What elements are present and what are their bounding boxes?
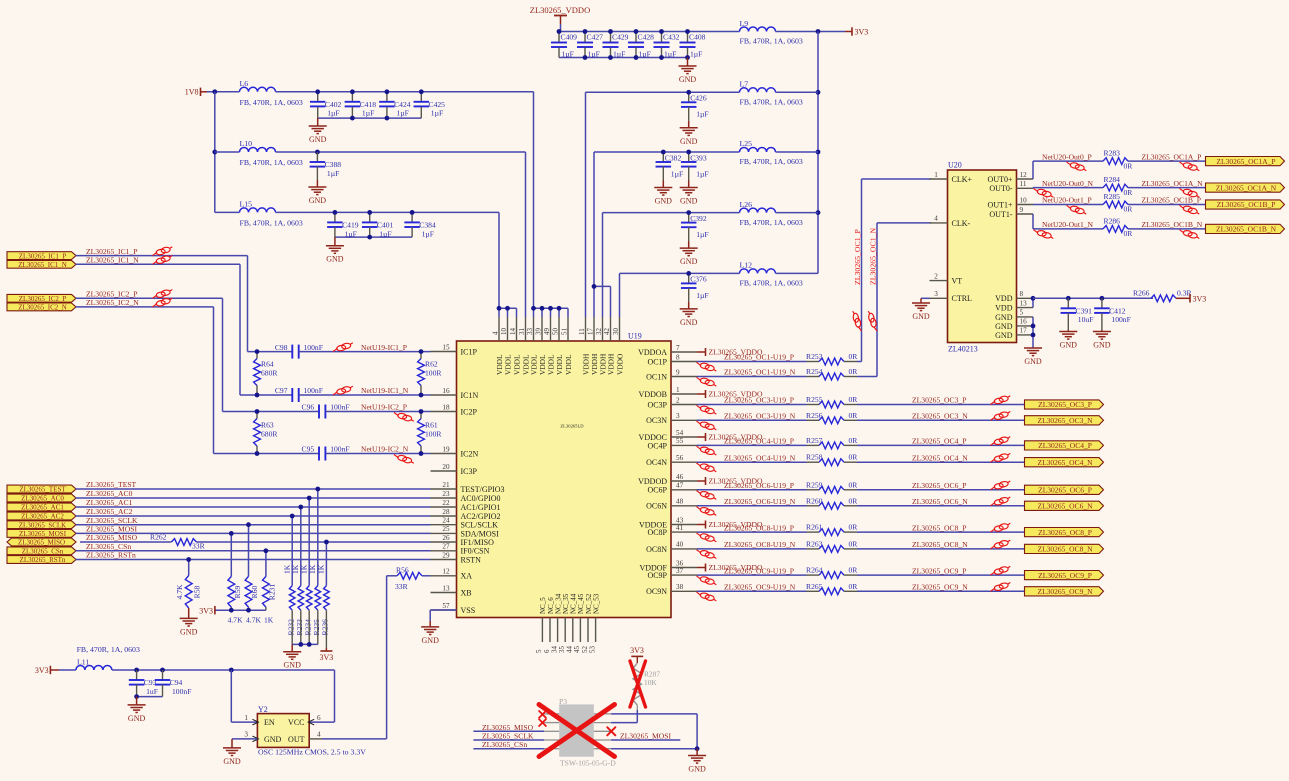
svg-text:IC2N: IC2N (461, 449, 479, 458)
svg-text:VDD: VDD (995, 294, 1013, 303)
svg-text:GND: GND (284, 661, 302, 670)
wire Y2 GND pin (232, 738, 257, 740)
svg-text:FB, 470R, 1A, 0603: FB, 470R, 1A, 0603 (77, 645, 140, 654)
junction (315, 89, 320, 94)
power 1V8 (185, 88, 207, 97)
svg-text:C392: C392 (690, 214, 707, 223)
svg-text:C97: C97 (275, 386, 288, 395)
svg-text:0R: 0R (1124, 205, 1134, 214)
svg-text:IC3P: IC3P (461, 467, 478, 476)
port tag ZL30265_IC1_N (7, 260, 76, 268)
junction (385, 116, 390, 121)
U20 right pin 17 GND (995, 327, 1033, 340)
svg-text:3V3: 3V3 (199, 607, 213, 616)
svg-text:NetU19-IC1_P: NetU19-IC1_P (361, 343, 407, 352)
svg-text:ZL30265_AC0: ZL30265_AC0 (21, 495, 64, 503)
wire R286 to tag (1128, 228, 1206, 230)
ferrite bead L26 (740, 200, 803, 227)
ground below C391 (1059, 330, 1077, 350)
svg-text:C409: C409 (561, 33, 578, 42)
port tag ZL30265_OC1A_P (1206, 157, 1285, 166)
svg-text:GND: GND (264, 735, 282, 744)
U19 top pin 30 VDDO (612, 317, 625, 375)
svg-text:ZL30265_RSTn: ZL30265_RSTn (86, 551, 136, 560)
svg-text:OUT1+: OUT1+ (988, 200, 1013, 209)
U19 left pin 27 IF0/CSN (431, 543, 490, 556)
U20 left pin 4 CLK- (930, 215, 971, 228)
svg-text:3: 3 (244, 731, 248, 739)
svg-text:R62: R62 (425, 360, 438, 369)
svg-text:ZL30265_CSn: ZL30265_CSn (86, 542, 131, 551)
svg-text:C376: C376 (690, 275, 707, 284)
wire L26 feed down to U19 (602, 213, 604, 317)
svg-text:ZL30265_OC8-U19_P: ZL30265_OC8-U19_P (724, 523, 794, 532)
wire NetU20-Out0_N row (1033, 187, 1103, 189)
probe ZL30265_OC6-U19_P (697, 491, 717, 500)
probe ZL30265_OC1B_P (1180, 205, 1200, 214)
probe ZL30265_OC4_N (991, 453, 1011, 462)
svg-text:0R: 0R (1124, 188, 1134, 197)
power tap ZL30265_VDDO (697, 348, 763, 357)
resistor R284 0R (1103, 175, 1133, 197)
ground below P3 loop (688, 749, 706, 774)
power 3V3 (845, 27, 868, 36)
svg-text:42: 42 (603, 328, 611, 336)
svg-text:GND: GND (309, 196, 327, 205)
U19 right pin 47 OC6P (647, 482, 697, 495)
junction (659, 55, 664, 60)
svg-text:NetU19-IC2_P: NetU19-IC2_P (361, 403, 407, 412)
port tag ZL30265_OC3_N (1025, 416, 1104, 425)
wire to R263 (697, 548, 807, 550)
probe NetU20-Out1_P (1067, 205, 1087, 214)
port tag ZL30265_OC6_N (1025, 501, 1104, 510)
U19 left pin 29 RSTN (431, 551, 482, 564)
svg-text:12: 12 (1020, 171, 1028, 179)
wire L25 feed down to U19 (593, 152, 595, 317)
svg-text:ZL30265_OC4-U19_P: ZL30265_OC4-U19_P (724, 437, 794, 446)
wire L15 feed to pin 4 (498, 212, 500, 317)
wire to R254 (697, 376, 807, 378)
probe ZL30265_OC8-U19_N (697, 550, 717, 559)
svg-text:1: 1 (676, 386, 680, 394)
svg-text:GND: GND (995, 313, 1013, 322)
probe ZL30265_OC9-U19_P (697, 576, 717, 585)
svg-text:R257: R257 (806, 436, 823, 445)
svg-text:0R: 0R (849, 496, 859, 505)
svg-text:ZL30265_IC1_N: ZL30265_IC1_N (18, 261, 67, 269)
wire U20 riser R286 (1032, 214, 1034, 229)
junction (246, 608, 251, 613)
U19 left pin 57 VSS (431, 602, 476, 615)
svg-text:0R: 0R (849, 523, 859, 532)
svg-text:6: 6 (317, 714, 321, 722)
probe ZL30265_OC4-U19_P (697, 446, 717, 455)
svg-text:NetU20-Out1_P: NetU20-Out1_P (1042, 196, 1092, 205)
svg-text:R254: R254 (806, 367, 823, 376)
junction (557, 29, 562, 34)
power tap ZL30265_VDDO (697, 563, 763, 572)
svg-text:OC4P: OC4P (647, 441, 667, 450)
resistor R231 (263, 551, 277, 610)
U19 right pin 54 VDDOC (639, 429, 697, 442)
port tag ZL30265_MOSI (7, 530, 76, 538)
svg-text:NetU20-Out1_N: NetU20-Out1_N (1042, 220, 1094, 229)
wire SCLK into P3 (473, 739, 544, 741)
capacitor C408 1uF (680, 32, 706, 59)
svg-text:IF1/MISO: IF1/MISO (461, 538, 495, 547)
wire P3 pin4 to R287 (611, 722, 637, 724)
U19 bottom pin 44 NC_44 (566, 593, 578, 653)
junction (816, 29, 821, 34)
svg-text:ZL30265_OC1B_P: ZL30265_OC1B_P (1217, 200, 1276, 209)
U20 left pin 3 CTRL (930, 290, 973, 303)
svg-text:10K: 10K (644, 678, 657, 687)
svg-text:C94: C94 (170, 678, 183, 687)
IC U19 ZL30265LD (457, 332, 672, 618)
svg-text:1µF: 1µF (696, 230, 708, 239)
svg-text:VDDL: VDDL (564, 354, 573, 375)
svg-text:3V3: 3V3 (855, 28, 869, 37)
svg-text:R58: R58 (193, 585, 202, 598)
U20 right pin 16 GND (995, 318, 1033, 331)
wire 1V8 branch column (214, 92, 216, 213)
svg-text:11: 11 (578, 328, 586, 335)
svg-text:TEST/GPIO3: TEST/GPIO3 (461, 485, 505, 494)
ground at U20 CTRL (912, 298, 930, 321)
svg-text:NetU20-Out0_N: NetU20-Out0_N (1042, 179, 1094, 188)
svg-text:ZL30265_OC9_P: ZL30265_OC9_P (1038, 571, 1092, 580)
junction (350, 89, 355, 94)
oscillator Y2 (244, 705, 366, 757)
capacitor C98 100nF (275, 343, 323, 359)
svg-text:OC9N: OC9N (646, 587, 667, 596)
junction (1100, 296, 1105, 301)
IC U20 ZL40213 (948, 161, 1017, 354)
svg-text:24: 24 (442, 517, 450, 525)
U20 right pin 8 VDD (995, 290, 1033, 303)
svg-text:19: 19 (442, 445, 450, 453)
svg-text:15: 15 (442, 343, 450, 351)
U19 left pin 21 TEST/GPIO3 (431, 481, 505, 494)
U19 top pin 10 VDDL (500, 317, 513, 375)
svg-text:4: 4 (491, 331, 499, 335)
wire L6 cap bottom rail (318, 117, 422, 119)
svg-text:100nF: 100nF (304, 343, 323, 352)
svg-text:0R: 0R (849, 582, 859, 591)
ground below C382 (654, 181, 672, 206)
junction (264, 548, 269, 553)
wire Y2 OUT to XA column (309, 738, 322, 740)
svg-text:GND: GND (309, 135, 327, 144)
svg-text:IF0/CSN: IF0/CSN (461, 547, 490, 556)
svg-text:ZL30265LD: ZL30265LD (560, 424, 584, 429)
junction (212, 89, 217, 94)
svg-text:680R: 680R (261, 430, 278, 439)
ground below C412 (1093, 330, 1111, 350)
U19 right pin 36 VDDOF (639, 559, 697, 572)
svg-text:1K: 1K (264, 616, 274, 625)
wire L12 feed down to U19 (619, 273, 621, 317)
U19 top pin 50 VDDL (551, 317, 564, 375)
svg-text:R286: R286 (1104, 216, 1121, 225)
port tag ZL30265_OC8_P (1025, 528, 1104, 537)
resistor R63 680R (254, 412, 279, 454)
ground below C393 (680, 181, 698, 206)
U19 bottom pin 6 NC_6 (543, 597, 555, 653)
junction (186, 557, 191, 562)
wire ZL30265_SCLK to U19 (76, 524, 431, 526)
svg-text:10: 10 (1020, 196, 1028, 204)
svg-text:C402: C402 (325, 100, 342, 109)
svg-text:VDDOA: VDDOA (638, 348, 667, 357)
svg-text:ZL30265_IC2_P: ZL30265_IC2_P (19, 295, 67, 303)
wire R253 output (857, 361, 862, 363)
power 3V3 pullups (199, 606, 215, 616)
junction (583, 29, 588, 34)
svg-text:40: 40 (676, 541, 684, 549)
wire L9 to 3V3 (776, 31, 846, 33)
svg-text:OC8N: OC8N (646, 545, 667, 554)
svg-text:AC1/GPIO1: AC1/GPIO1 (461, 503, 501, 512)
probe ZL30265_OC4-U19_N (697, 463, 717, 472)
big X over P3 (539, 705, 615, 757)
svg-text:3V3: 3V3 (320, 653, 334, 662)
svg-text:ZL30265_OC9-U19_P: ZL30265_OC9-U19_P (724, 566, 794, 575)
svg-text:27: 27 (442, 543, 450, 551)
resistor R263 0R (806, 539, 858, 552)
wire to R265 (697, 590, 807, 592)
svg-text:ZL30265_OC1A_P: ZL30265_OC1A_P (1142, 152, 1202, 161)
svg-text:ZL30265_OC6_N: ZL30265_OC6_N (912, 497, 968, 506)
ground below VSS (421, 621, 439, 645)
port tag ZL30265_MISO (7, 538, 76, 546)
svg-text:46: 46 (676, 473, 684, 481)
svg-text:C96: C96 (302, 403, 315, 412)
U19 right pin 8 OC1P (647, 353, 697, 366)
resistor R254 0R (806, 367, 858, 380)
svg-text:32: 32 (595, 328, 603, 336)
junction (659, 29, 664, 34)
junction (290, 514, 295, 519)
resistor R56 33R (395, 566, 422, 592)
probe NetU20-Out0_P (1067, 162, 1087, 171)
svg-text:1µF: 1µF (671, 169, 683, 178)
svg-text:R64: R64 (261, 360, 274, 369)
junction (608, 29, 613, 34)
wire L10 row left (215, 151, 240, 153)
wire R259 to tag (857, 489, 1025, 491)
svg-text:R283: R283 (1104, 149, 1121, 158)
svg-text:ZL30265_OC8-U19_N: ZL30265_OC8-U19_N (724, 540, 796, 549)
resistor R235 1K (308, 489, 321, 644)
port tag ZL30265_OC9_N (1025, 587, 1104, 596)
junction (134, 668, 139, 673)
svg-text:VSS: VSS (461, 606, 476, 615)
U19 top pin 42 VDDH (603, 317, 616, 375)
resistor R265 0R (806, 582, 858, 595)
U19 left pin 16 IC1N (431, 387, 479, 400)
svg-text:ZL30265_OC3_P: ZL30265_OC3_P (912, 396, 966, 405)
probe NetU19-IC2_N (394, 455, 414, 464)
svg-text:18: 18 (442, 403, 450, 411)
junction (307, 642, 312, 647)
wire to R258 (697, 461, 807, 463)
svg-text:OC6P: OC6P (647, 486, 667, 495)
wire VDDL tie pins 4-10-14 (499, 307, 517, 309)
probe ZL30265_OC8_P (991, 523, 1011, 532)
U19 right pin 41 OC8P (647, 524, 697, 537)
svg-text:VDDO: VDDO (616, 353, 625, 375)
probe ZL30265_OC6_N (991, 497, 1011, 506)
probe IC2_N (153, 298, 173, 307)
capacitor C382 1uF (656, 152, 684, 181)
svg-text:14: 14 (509, 328, 517, 336)
svg-text:2: 2 (676, 396, 680, 404)
svg-text:ZL30265_VDDO: ZL30265_VDDO (530, 5, 590, 15)
probe ZL30265_OC9-U19_N (697, 592, 717, 601)
ferrite bead L25 (740, 139, 803, 166)
probe ZL30265_OC1-U19_N (697, 377, 717, 386)
junction (557, 306, 562, 311)
svg-text:C388: C388 (325, 160, 342, 169)
svg-text:1K: 1K (317, 564, 326, 574)
junction (1031, 296, 1036, 301)
junction (1066, 296, 1071, 301)
ground below C388 (308, 180, 326, 205)
svg-text:VDDL: VDDL (504, 354, 513, 375)
svg-text:4.7K: 4.7K (228, 616, 243, 625)
U19 right pin 46 VDDOD (638, 473, 697, 486)
junction (419, 451, 424, 456)
wire NetU19-IC1_N row (240, 394, 292, 396)
U19 top pin 39 VDDL (534, 317, 547, 375)
wire L12 row (620, 272, 740, 274)
resistor R59 (228, 533, 242, 610)
resistor R253 0R (806, 352, 858, 365)
U19 top pin 4 VDDL (491, 317, 504, 375)
wire L15 cap bottom rail (335, 236, 412, 238)
svg-text:ZL30265_OC1-U19_N: ZL30265_OC1-U19_N (724, 368, 796, 377)
resistor R259 0R (806, 480, 858, 493)
wire P3 pin2 to ground loop (611, 713, 697, 715)
svg-text:OC9P: OC9P (647, 571, 667, 580)
wire VSS to ground (430, 609, 456, 611)
svg-text:FB, 470R, 1A, 0603: FB, 470R, 1A, 0603 (240, 219, 303, 228)
svg-text:ZL30265_OC3_P: ZL30265_OC3_P (1038, 400, 1092, 409)
junction (255, 409, 260, 414)
svg-text:1µF: 1µF (431, 109, 443, 118)
wire L25 row (594, 151, 740, 153)
svg-text:1µF: 1µF (379, 229, 391, 238)
capacitor C95 100nF (302, 445, 350, 461)
svg-text:GND: GND (326, 255, 344, 264)
probe OC1_P column (853, 311, 862, 331)
svg-text:L6: L6 (240, 79, 249, 88)
svg-text:17: 17 (586, 328, 594, 336)
junction (419, 409, 424, 414)
port tag ZL30265_SCLK (7, 521, 76, 529)
svg-text:41: 41 (676, 524, 684, 532)
wire L12 to 3V3 column (776, 272, 819, 274)
power tap ZL30265_VDDO (697, 520, 763, 529)
svg-text:ZL30265_OC9_N: ZL30265_OC9_N (1038, 587, 1094, 596)
svg-text:ZL30265_OC1B_N: ZL30265_OC1B_N (1142, 220, 1203, 229)
svg-text:C418: C418 (360, 100, 377, 109)
svg-text:23: 23 (442, 490, 450, 498)
junction (548, 306, 553, 311)
svg-text:NetU19-IC2_N: NetU19-IC2_N (361, 445, 409, 454)
svg-text:1µF: 1µF (639, 50, 651, 59)
wire CSn into P3 (473, 748, 544, 750)
svg-text:SCL/SCLK: SCL/SCLK (461, 521, 499, 530)
probe NetU19-IC2_P (394, 413, 414, 422)
wire IC1_P (76, 255, 248, 257)
junction (333, 210, 338, 215)
capacitor C432 1uF (654, 32, 680, 59)
svg-text:GND: GND (680, 137, 698, 146)
wire R260 to tag (857, 505, 1025, 507)
wire NetU19-IC1_P row (248, 351, 293, 353)
svg-text:C401: C401 (377, 221, 394, 230)
ground below C408 (679, 58, 697, 85)
resistor R58 4.7K (175, 560, 202, 609)
wire P3 pin10 to ground (611, 748, 697, 750)
svg-text:IC1P: IC1P (461, 347, 478, 356)
U19 bottom pin 52 NC_52 (581, 593, 593, 653)
U20 left pin 2 VT (930, 272, 963, 285)
wire L15 output rail (276, 211, 500, 213)
svg-text:GND: GND (1093, 341, 1111, 350)
svg-text:47: 47 (676, 482, 684, 490)
wire R283 to tag (1128, 160, 1206, 162)
svg-text:GND: GND (128, 714, 146, 723)
svg-text:GND: GND (680, 197, 698, 206)
resistor R236 1K (317, 542, 330, 648)
junction (315, 487, 320, 492)
svg-text:0R: 0R (849, 539, 859, 548)
ground below C376 (680, 302, 698, 327)
junction (634, 29, 639, 34)
U19 right pin 40 OC8N (646, 541, 697, 554)
svg-text:1µF: 1µF (588, 50, 600, 59)
svg-text:57: 57 (442, 602, 450, 610)
junction (134, 694, 139, 699)
probe NetU19-IC1_P (333, 343, 353, 352)
no-connect X pin1 (539, 711, 546, 718)
capacitor C409 1uF (551, 32, 577, 59)
power tap ZL30265_VDDO (697, 477, 763, 486)
wire R256 to tag (857, 419, 1025, 421)
resistor R283 0R (1103, 149, 1133, 171)
svg-text:R264: R264 (806, 566, 823, 575)
power tap ZL30265_VDDO (697, 433, 763, 442)
resistor R262 33R (150, 533, 206, 551)
svg-text:ZL30265_OC8_N: ZL30265_OC8_N (912, 540, 968, 549)
svg-text:ZL30265_OC4-U19_N: ZL30265_OC4-U19_N (724, 453, 796, 462)
svg-text:30: 30 (612, 328, 620, 336)
port tag ZL30265_RSTn (7, 556, 76, 564)
svg-text:3V3: 3V3 (630, 646, 644, 655)
svg-text:ZL30265_OC1B_N: ZL30265_OC1B_N (1216, 225, 1277, 234)
svg-text:OC1N: OC1N (646, 372, 667, 381)
resistor R61 100R (418, 412, 443, 454)
no-connect X pin3 (539, 719, 546, 726)
junction (298, 505, 303, 510)
svg-text:20: 20 (442, 463, 450, 471)
wire R284 to tag (1128, 187, 1206, 189)
resistor R264 0R (806, 566, 858, 579)
